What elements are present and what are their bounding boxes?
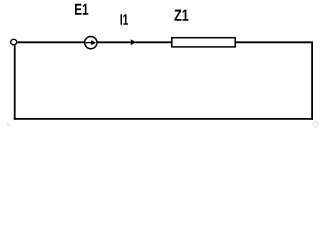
label Z1 [174, 10, 188, 21]
label I1 [121, 14, 129, 25]
impedance Z1 (rectangle) [172, 38, 235, 47]
faint grid artifact bottom-left [7, 123, 11, 127]
wire left vertical segment [14, 45, 16, 120]
source E1 (circle) [85, 36, 97, 48]
terminal node (open circle, top-left) [11, 39, 17, 45]
wire right vertical segment [311, 41, 313, 119]
source E1 arrow inside circle [86, 42, 92, 44]
current arrow I1 [131, 39, 136, 45]
faint grid artifact bottom-right [313, 121, 319, 127]
wire bottom segment [14, 118, 313, 120]
label E1 [75, 4, 88, 15]
wire top segment from E1 to Z1 [97, 41, 172, 43]
wire top segment from Z1 to top-right corner [235, 41, 312, 43]
wire top segment from terminal to E1 [17, 41, 84, 43]
